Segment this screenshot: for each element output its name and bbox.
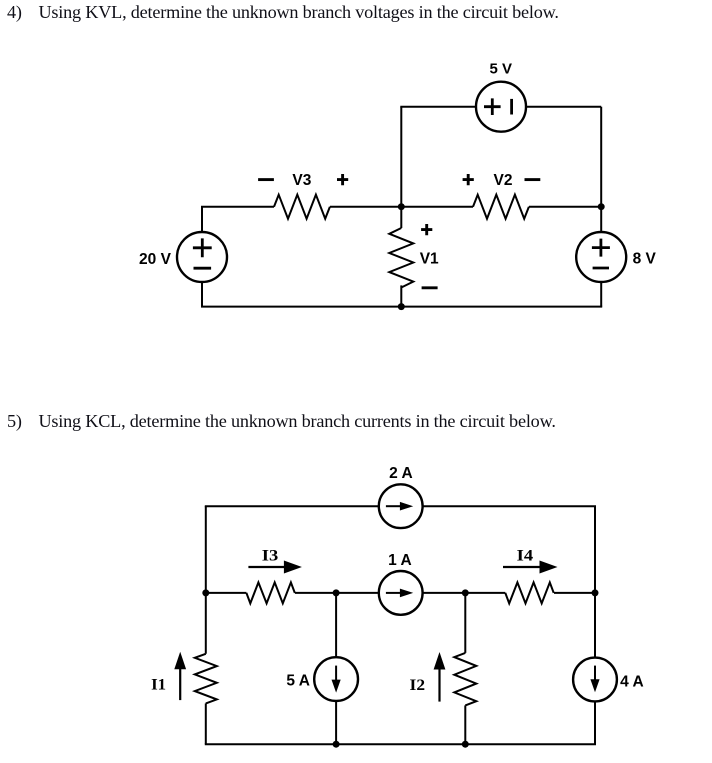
svg-text:V1: V1 bbox=[420, 251, 439, 268]
resistor V3 bbox=[274, 195, 330, 219]
arrow inside 5A source bbox=[335, 666, 337, 681]
label plus sign left of V2 bbox=[463, 174, 474, 185]
wire: middle vertical from main wire to V1 bbox=[400, 207, 402, 228]
resistor V2 bbox=[473, 195, 529, 219]
svg-text:4 A: 4 A bbox=[620, 674, 644, 691]
problem 5 statement bbox=[7, 411, 556, 432]
node: bottom wire junction at I2 branch bbox=[462, 741, 469, 748]
wire: circuit4 main horizontal left segment (left corner to V3) bbox=[201, 206, 274, 208]
svg-text:5 V: 5 V bbox=[490, 61, 513, 78]
svg-text:I4: I4 bbox=[517, 548, 534, 565]
current source 1A (circle) bbox=[379, 571, 423, 615]
label minus sign left of V3 bbox=[258, 178, 274, 181]
wire: circuit4 right vertical above 8V source bbox=[600, 207, 602, 232]
node: bottom wire junction at 5A branch bbox=[333, 741, 340, 748]
current arrow I2 bbox=[438, 669, 440, 702]
wire: circuit5 bottom horizontal bbox=[205, 743, 596, 745]
wire: 5V branch right vertical down to main wire bbox=[600, 107, 602, 207]
polarity minus inside 8V source bbox=[593, 267, 609, 270]
svg-text:2 A: 2 A bbox=[389, 465, 413, 482]
wire: circuit5 right vertical from top to 4A source bbox=[594, 506, 596, 657]
polarity plus inside 20V source bbox=[193, 238, 212, 257]
polarity plus inside 8V source bbox=[592, 239, 610, 257]
wire: circuit4 left vertical below 20V source bbox=[201, 282, 203, 307]
wire: 5V branch riser from middle node bbox=[400, 107, 402, 207]
wire: I1 to bottom wire bbox=[205, 703, 207, 744]
node: middle wire left junction bbox=[202, 589, 209, 596]
node: middle wire right junction bbox=[592, 589, 599, 596]
resistor I1 bbox=[195, 654, 217, 704]
current source 2A (circle) bbox=[379, 484, 423, 528]
wire: 5V branch top-right horizontal bbox=[526, 106, 601, 108]
label plus sign right of V3 bbox=[337, 174, 348, 185]
arrow inside 4A source bbox=[594, 666, 596, 681]
arrow inside 2A source bbox=[386, 505, 401, 507]
svg-text:5 A: 5 A bbox=[286, 672, 310, 689]
current arrow I3 bbox=[248, 566, 285, 568]
polarity bar (minus) inside 5V source bbox=[510, 99, 513, 115]
resistor I2 bbox=[454, 653, 476, 706]
wire: circuit4 bottom horizontal bbox=[201, 306, 602, 308]
voltage source 8V (circle) bbox=[576, 232, 626, 282]
voltage source 5V (circle) bbox=[476, 82, 526, 132]
wire: I2 branch from middle wire to resistor bbox=[464, 593, 466, 653]
svg-text:20 V: 20 V bbox=[139, 251, 172, 268]
svg-text:V3: V3 bbox=[292, 172, 311, 189]
resistor I4 bbox=[505, 582, 553, 603]
polarity minus inside 20V source bbox=[194, 267, 212, 270]
wire: circuit5 top horizontal right of 2A source bbox=[423, 505, 596, 507]
wire: 5V branch top-left horizontal bbox=[400, 106, 476, 108]
wire: circuit4 left vertical above 20V source bbox=[201, 207, 203, 232]
current arrow I4 bbox=[503, 566, 541, 568]
current source 5A (circle) bbox=[314, 657, 358, 701]
node: middle junction of main wire bbox=[398, 203, 405, 210]
wire: I3 to 1A source through junction bbox=[295, 592, 379, 594]
wire: circuit5 middle horizontal from left node to I3 bbox=[206, 592, 247, 594]
polarity plus inside 5V source bbox=[484, 98, 501, 115]
resistor I3 bbox=[246, 582, 294, 603]
node: middle wire junction at I2 branch bbox=[462, 589, 469, 596]
node: middle wire junction at 5A branch bbox=[333, 589, 340, 596]
label minus sign below V1 bbox=[422, 286, 438, 289]
current source 4A (circle) bbox=[573, 658, 617, 702]
wire: V2 to right node bbox=[529, 206, 601, 208]
wire: 4A source to bottom wire bbox=[594, 701, 596, 744]
wire: circuit5 top horizontal left of 2A source bbox=[205, 505, 379, 507]
label plus sign above V1 bbox=[421, 224, 432, 235]
wire: 5A source to bottom wire bbox=[335, 701, 337, 744]
problem 4 statement bbox=[7, 2, 559, 23]
node: bottom middle junction bbox=[398, 303, 405, 310]
svg-text:1 A: 1 A bbox=[388, 552, 412, 569]
label minus sign right of V2 bbox=[525, 178, 541, 181]
svg-text:I1: I1 bbox=[151, 676, 166, 693]
voltage source 20V (circle) bbox=[177, 232, 227, 282]
wire: 5A branch from middle wire to source bbox=[335, 593, 337, 657]
wire: I2 to bottom wire bbox=[464, 705, 466, 744]
wire: circuit4 right vertical below 8V source bbox=[600, 282, 602, 307]
wire: V1 to bottom wire bbox=[400, 285, 402, 306]
svg-text:V2: V2 bbox=[494, 172, 513, 189]
arrow inside 1A source bbox=[386, 592, 401, 594]
wire: circuit5 left vertical from top to I1 bbox=[205, 506, 207, 654]
resistor V1 bbox=[389, 228, 413, 288]
svg-text:8 V: 8 V bbox=[633, 251, 657, 268]
svg-text:I2: I2 bbox=[410, 677, 426, 694]
wire: V3 to V2 through middle node bbox=[330, 206, 473, 208]
svg-text:I3: I3 bbox=[262, 548, 279, 565]
node: right junction of main wire bbox=[598, 203, 605, 210]
wire: I4 to right node bbox=[554, 592, 595, 594]
current arrow I1 bbox=[179, 668, 181, 700]
wire: 1A source to I4 through junction bbox=[423, 592, 506, 594]
